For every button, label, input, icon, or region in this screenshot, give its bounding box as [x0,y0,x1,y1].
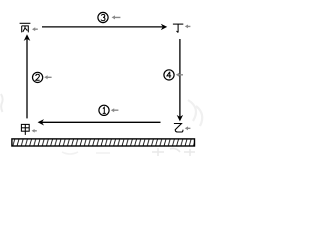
arrow 3 shaft (丙 to 丁, top) [42,26,163,28]
label circled 2 [33,72,43,82]
watermark fragment left edge [1,94,3,112]
watermark fragment bottom band [152,148,195,156]
arrow 2 shaft (甲 up to 丙, left) [26,39,28,119]
formatting mark after circled 2 [44,75,51,79]
formatting mark after 丁 [185,25,191,29]
label circled 3 [98,12,108,22]
arrow 2 head [24,34,31,41]
formatting mark after 乙 [185,126,191,130]
hatched ground bar [12,139,195,146]
arrow 1 shaft (乙 to 甲, bottom) [42,121,161,123]
node 丙 (top-left character) [20,23,31,32]
label circled 1 [99,105,109,115]
watermark fragment bottom right curve [188,100,202,126]
formatting mark after circled 4 [176,73,183,77]
formatting mark after 甲 [32,129,37,133]
node 乙 (bottom-right character) [174,124,183,133]
arrow 4 head [177,115,183,122]
arrow 4 shaft (丁 down to 乙, right) [179,39,181,117]
formatting mark after 丙 [32,27,38,31]
formatting mark after circled 1 [111,108,119,112]
node 甲 (bottom-left character) [21,124,29,134]
arrow 1 head [38,119,44,125]
arrow 3 head [161,24,167,30]
node 丁 (top-right character) [173,24,183,32]
label circled 4 [164,70,174,80]
formatting mark after circled 3 [112,15,121,19]
